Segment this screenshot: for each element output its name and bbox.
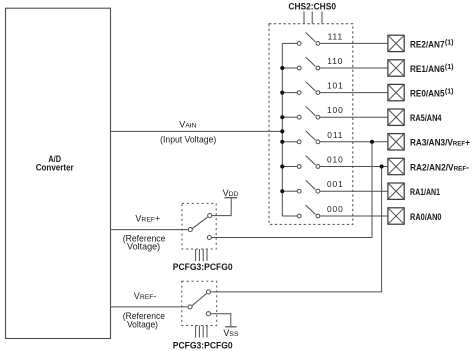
wire S2 upper throw to RA2/AN2/Vref- node [210,167,381,292]
wire S2 lower throw to VSS [210,314,231,327]
I/O pin RE2/AN7 [388,35,404,51]
I/O pin RA2/AN2/Vref- [388,158,404,174]
svg-text:(1): (1) [445,39,454,46]
PCFG control lines into S1 [196,249,207,261]
switch SW110 (channel 110) [282,57,388,70]
svg-text:PCFG3:PCFG0: PCFG3:PCFG0 [173,262,233,272]
power symbol VSS [223,327,239,338]
wire S1 lower throw to RA3/AN3/Vref+ node [211,142,372,238]
junction on bus at row 110 [280,66,284,70]
svg-text:CHS2:CHS0: CHS2:CHS0 [288,2,336,12]
junction on bus at row 011 [280,140,284,144]
wire VREF- from A/D converter to reference switch S2 [111,306,189,308]
I/O pin RA0/AN0 [388,208,404,224]
wire VAIN from A/D converter to mux bus [111,130,283,132]
wire VREF+ from A/D converter to reference switch S1 [111,229,189,231]
svg-text:RE1/AN6: RE1/AN6 [410,64,445,74]
svg-text:RE0/AN5: RE0/AN5 [410,89,445,99]
PCFG control lines into S2 [196,326,207,338]
svg-text:Voltage): Voltage) [127,241,160,251]
switch SW011 (channel 011) [282,131,388,144]
wire S1 upper throw to VDD [212,198,232,215]
svg-text:VREF-: VREF- [134,291,157,301]
analog input multiplexer dashed box [269,24,353,225]
svg-text:Converter: Converter [36,162,74,172]
switch SW001 (channel 001) [282,180,388,193]
svg-text:RA3/AN3/VREF+: RA3/AN3/VREF+ [410,138,470,148]
svg-text:RA5/AN4: RA5/AN4 [410,113,442,123]
svg-text:(1): (1) [445,64,454,71]
svg-text:101: 101 [327,81,344,91]
junction on RA3 wire (Vref+) [370,140,374,144]
switch S1 pole and throws [188,214,212,240]
switch SW100 (channel 100) [282,106,388,119]
I/O pin RE0/AN5 [388,84,404,100]
I/O pin RA5/AN4 [388,109,404,125]
reference select switch S1 dashed box [182,203,216,249]
svg-text:010: 010 [327,155,344,165]
svg-text:VREF+: VREF+ [135,214,160,224]
switch SW010 (channel 010) [282,156,388,169]
I/O pin RA3/AN3/Vref+ [388,134,404,150]
switch SW111 (channel 111) [282,33,388,46]
svg-text:RA2/AN2/VREF-: RA2/AN2/VREF- [410,162,469,172]
svg-text:001: 001 [327,179,344,189]
I/O pin RA1/AN1 [388,183,404,199]
junction on bus at row 101 [280,91,284,95]
switch SW101 (channel 101) [282,82,388,95]
svg-text:RE2/AN7: RE2/AN7 [410,39,445,49]
svg-text:(1): (1) [445,89,454,96]
svg-text:011: 011 [327,130,343,140]
junction on bus at row 100 [280,115,284,119]
svg-text:000: 000 [327,204,344,214]
svg-text:VDD: VDD [223,188,239,198]
svg-text:VAIN: VAIN [179,119,196,129]
CHS2:CHS0 select lines into mux [304,12,322,24]
switch S2 pole and throws [188,290,210,316]
junction on bus at row 001 [280,189,284,193]
svg-text:RA1/AN1: RA1/AN1 [410,187,440,197]
svg-text:(Input Voltage): (Input Voltage) [160,135,216,145]
mux common bus vertical wire [281,43,283,216]
power symbol VDD [223,188,239,198]
svg-text:110: 110 [327,56,343,66]
switch SW000 (channel 000) [282,205,388,218]
A/D converter block U1 [6,8,111,338]
junction on RA2 wire (Vref-) [380,164,384,168]
svg-text:100: 100 [327,105,344,115]
svg-text:Voltage): Voltage) [127,319,158,329]
svg-text:VSS: VSS [223,328,239,338]
svg-text:111: 111 [328,31,343,41]
junction on bus at row 010 [280,164,284,168]
I/O pin RE1/AN6 [388,60,404,76]
svg-text:RA0/AN0: RA0/AN0 [410,212,442,222]
reference select switch S2 dashed box [182,281,217,325]
junction VAIN on mux bus [280,129,284,133]
svg-text:PCFG3:PCFG0: PCFG3:PCFG0 [173,340,233,350]
